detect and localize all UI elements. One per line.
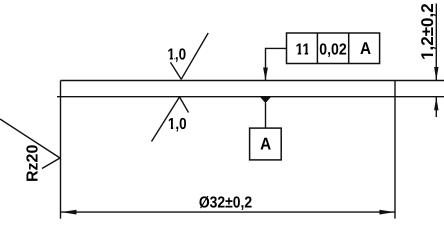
datum box (250, 128, 282, 160)
arrow down at plate top (434, 67, 438, 81)
leader arrow (263, 68, 268, 81)
svg-text:1,2±0,2: 1,2±0,2 (418, 3, 437, 60)
plate bottom outline line (57, 96, 444, 98)
datum triangle (260, 97, 271, 104)
surface symbol bottom (152, 97, 189, 142)
svg-text:1,0: 1,0 (167, 47, 186, 64)
dimension line O32 (61, 211, 395, 213)
plate top outline line (61, 80, 444, 82)
svg-text:Ø32±0,2: Ø32±0,2 (199, 194, 252, 211)
feature control frame (287, 33, 380, 64)
plate left edge / extension line (60, 81, 62, 219)
surface symbol top (170, 33, 208, 79)
arrow right of O32 dimension (379, 210, 395, 215)
arrow left of O32 dimension (61, 210, 77, 215)
arrow up at plate bottom (434, 97, 438, 111)
dimension line 1,2 upper part (435, 4, 437, 81)
svg-text:1,0: 1,0 (168, 116, 187, 133)
svg-text:A: A (360, 39, 371, 58)
right extension line (394, 81, 396, 219)
surface symbol Rz (rotated, on left extension line) (0, 119, 60, 169)
leader from frame (266, 48, 287, 80)
svg-text:Rz20: Rz20 (25, 145, 42, 182)
svg-text:0,02: 0,02 (319, 41, 346, 58)
dimension line 1,2 lower part (435, 97, 437, 117)
datum stem (265, 103, 267, 128)
svg-text:A: A (260, 135, 271, 154)
svg-text:11: 11 (296, 42, 311, 59)
